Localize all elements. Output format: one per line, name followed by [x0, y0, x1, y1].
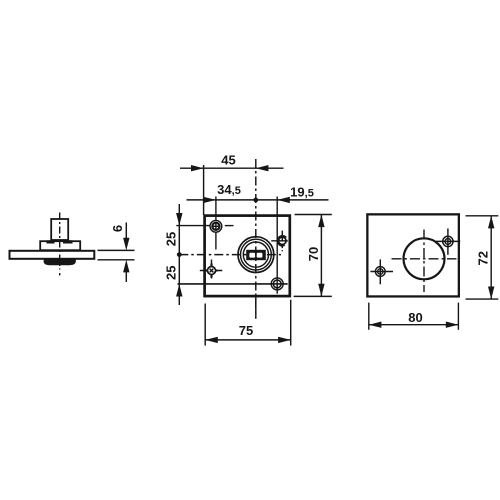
top-left screw hole vertical centerline: [215, 197, 217, 250]
plate (side view): [10, 251, 95, 259]
dim 70 extension line bottom: [294, 295, 332, 297]
centerline solid segment below square: [255, 297, 257, 319]
keyway right cell window: [257, 253, 263, 258]
svg-text:75: 75: [239, 323, 253, 338]
svg-text:80: 80: [408, 310, 422, 325]
bottom-right hole horizontal centerline: [178, 283, 288, 285]
svg-text:70: 70: [306, 247, 321, 261]
node dot at centerline: [253, 198, 258, 203]
svg-text:34,5: 34,5: [217, 182, 241, 197]
dim 6 lower arrow: [125, 272, 127, 283]
dim 6 extension line top: [98, 249, 135, 251]
bottom-right hole vertical extension line (19,5): [276, 197, 278, 294]
right view top-right hole centerlines: [447, 229, 449, 255]
large hole circle: [404, 238, 445, 279]
dim 70 extension line top: [295, 214, 332, 216]
top-right hole centerlines: [281, 231, 283, 252]
dim 6 upper arrow: [125, 223, 127, 240]
bump below plate: [44, 259, 76, 265]
top-right hole: [279, 237, 286, 244]
keyway bold rectangle: [246, 250, 266, 260]
dim 34,5 arrow: [203, 197, 216, 203]
svg-text:6: 6: [110, 225, 125, 232]
weld mark left at stem base: [47, 240, 55, 243]
svg-text:19,5: 19,5: [290, 184, 314, 199]
front plate square 75x70: [205, 216, 290, 297]
dim 45 right arrow: [256, 165, 269, 171]
dim 72 line with arrows: [490, 216, 492, 299]
extension line left edge of square: [203, 165, 205, 215]
dim 80 extension line right: [457, 303, 459, 330]
bottom-left hole centerlines: [211, 260, 213, 279]
top-left screw hole: [210, 220, 222, 232]
dim 25 bottom arrow: [176, 284, 182, 297]
dim 80 line with arrows: [369, 324, 459, 326]
svg-text:25: 25: [163, 232, 178, 246]
dim 45 left arrow: [191, 165, 204, 171]
back plate square 80x72: [367, 214, 459, 296]
dim 75 extension line right: [290, 300, 292, 346]
svg-text:25: 25: [163, 265, 178, 279]
left dim 25/25 vertical line: [178, 204, 180, 305]
dim 45 line: [180, 167, 284, 169]
horizontal centerline of cylinder: [179, 254, 281, 256]
dim 25 top arrow: [176, 213, 182, 226]
dim 70 line with arrows: [320, 215, 322, 297]
bottom-right hole: [271, 278, 283, 290]
weld mark right at stem base: [63, 240, 73, 243]
svg-text:45: 45: [221, 153, 235, 168]
dim 6 extension line bottom: [98, 259, 135, 261]
dim 19,5 arrow: [277, 197, 290, 203]
dim 72 extension line top: [466, 215, 499, 217]
stem (square spindle): [51, 219, 68, 240]
node dot on centerline: [177, 252, 182, 257]
svg-text:72: 72: [475, 251, 490, 265]
cylinder outer circle: [238, 237, 274, 273]
bottom-left hole: [208, 267, 216, 275]
cylinder inner circle: [243, 242, 268, 267]
boss (middle rectangle): [40, 241, 80, 250]
dim 75 extension line left: [204, 304, 206, 346]
centerline dot below: [59, 273, 61, 276]
dim 72 extension line bottom: [466, 298, 499, 300]
vertical centerline through cylinder: [255, 159, 257, 319]
dim 75 line with arrows: [205, 339, 291, 341]
top-left screw hole horizontal centerline: [176, 225, 209, 227]
vertical centerline of large hole: [423, 230, 425, 293]
dim 80 extension line left: [368, 303, 370, 330]
cylinder middle circle: [241, 239, 272, 270]
horizontal centerline of large hole: [392, 258, 457, 260]
right view bottom-left hole: [375, 267, 385, 277]
keyway left cell window: [249, 253, 255, 258]
right view bottom-left hole centerlines: [379, 259, 381, 284]
centerline of side view: [59, 213, 61, 270]
right view top-right hole: [443, 236, 453, 246]
dim 34,5 / 19,5 line: [187, 199, 329, 201]
